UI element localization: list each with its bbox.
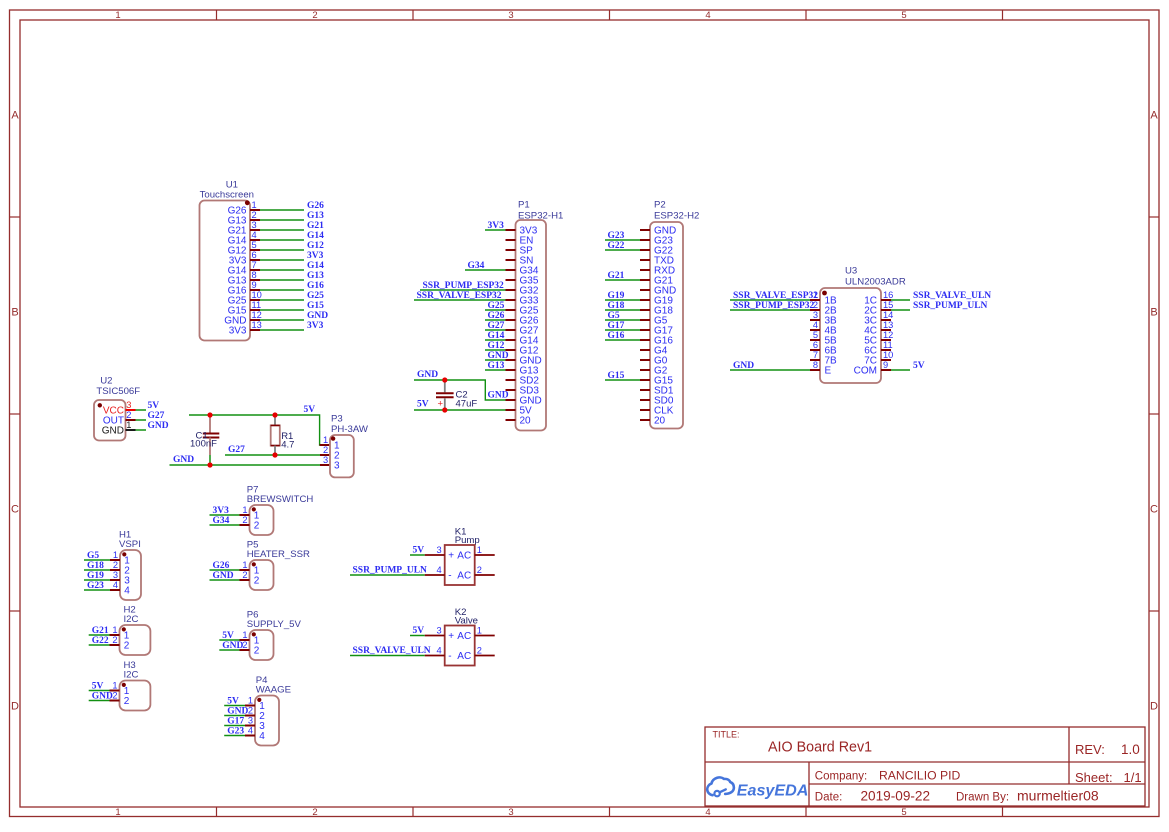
svg-text:SSR_PUMP_ESP32: SSR_PUMP_ESP32 [423, 281, 505, 291]
svg-text:1: 1 [323, 435, 328, 445]
svg-text:1.0: 1.0 [1121, 742, 1140, 757]
svg-text:8: 8 [252, 270, 257, 280]
svg-text:6: 6 [813, 340, 818, 350]
svg-text:5V: 5V [417, 399, 429, 409]
svg-text:GND: GND [488, 351, 509, 361]
svg-text:2: 2 [254, 520, 260, 531]
svg-text:GND: GND [733, 361, 754, 371]
svg-text:3: 3 [323, 455, 328, 465]
svg-text:-: - [448, 651, 451, 662]
svg-text:3V3: 3V3 [229, 325, 247, 336]
svg-text:4: 4 [705, 10, 710, 21]
svg-text:5V: 5V [413, 626, 425, 636]
svg-text:G34: G34 [213, 516, 230, 526]
svg-text:G23: G23 [608, 231, 625, 241]
svg-text:2019-09-22: 2019-09-22 [861, 789, 931, 804]
svg-text:2: 2 [242, 570, 247, 580]
svg-text:P1: P1 [518, 200, 530, 211]
svg-text:2: 2 [312, 10, 317, 21]
svg-text:16: 16 [883, 290, 893, 300]
svg-text:3V3: 3V3 [307, 321, 324, 331]
svg-text:G19: G19 [87, 571, 104, 581]
svg-text:5V: 5V [227, 696, 239, 706]
svg-text:GND: GND [488, 390, 509, 400]
svg-text:ESP32-H2: ESP32-H2 [654, 210, 699, 221]
svg-text:G19: G19 [608, 291, 625, 301]
svg-text:5: 5 [901, 10, 906, 21]
svg-text:G14: G14 [307, 261, 324, 271]
svg-text:SSR_PUMP_ESP32: SSR_PUMP_ESP32 [733, 301, 815, 311]
svg-text:G13: G13 [307, 271, 324, 281]
svg-text:G15: G15 [608, 371, 625, 381]
svg-text:8: 8 [813, 360, 818, 370]
svg-text:G16: G16 [307, 281, 324, 291]
svg-text:G22: G22 [92, 636, 109, 646]
svg-text:3V3: 3V3 [488, 221, 505, 231]
svg-text:6: 6 [252, 250, 257, 260]
svg-text:A: A [1150, 109, 1158, 121]
svg-text:P3: P3 [331, 414, 343, 425]
svg-text:GND: GND [92, 691, 113, 701]
svg-text:1: 1 [477, 545, 482, 555]
svg-text:B: B [11, 306, 18, 318]
svg-text:12: 12 [252, 310, 262, 320]
svg-text:2: 2 [248, 706, 253, 716]
svg-text:G21: G21 [307, 221, 324, 231]
svg-text:3: 3 [252, 220, 257, 230]
svg-text:13: 13 [883, 320, 893, 330]
svg-text:G5: G5 [87, 551, 99, 561]
svg-text:Touchscreen: Touchscreen [200, 190, 254, 201]
svg-text:3: 3 [437, 626, 442, 636]
svg-text:G27: G27 [488, 321, 505, 331]
svg-text:Drawn By:: Drawn By: [956, 792, 1009, 804]
svg-text:+: + [448, 550, 454, 561]
svg-text:4: 4 [252, 230, 257, 240]
svg-text:HEATER_SSR: HEATER_SSR [247, 549, 310, 560]
svg-text:ULN2003ADR: ULN2003ADR [845, 277, 906, 288]
svg-text:I2C: I2C [124, 614, 139, 625]
svg-text:3: 3 [113, 570, 118, 580]
svg-text:+: + [438, 399, 444, 410]
svg-text:4: 4 [437, 565, 442, 575]
svg-text:2: 2 [254, 645, 260, 656]
svg-text:2: 2 [312, 807, 317, 818]
svg-text:G25: G25 [488, 301, 505, 311]
svg-text:U3: U3 [845, 266, 857, 277]
svg-text:1/1: 1/1 [1124, 770, 1142, 785]
svg-text:1: 1 [477, 626, 482, 636]
svg-text:1: 1 [126, 420, 131, 430]
svg-text:PH-3AW: PH-3AW [331, 424, 369, 435]
svg-text:1: 1 [115, 10, 120, 21]
svg-text:2: 2 [323, 445, 328, 455]
svg-text:2: 2 [477, 565, 482, 575]
svg-text:1: 1 [113, 550, 118, 560]
svg-text:GND: GND [307, 311, 328, 321]
svg-text:3V3: 3V3 [307, 251, 324, 261]
svg-text:U2: U2 [100, 376, 112, 387]
svg-text:AC: AC [457, 570, 471, 581]
svg-text:3: 3 [248, 716, 253, 726]
svg-text:G17: G17 [608, 321, 625, 331]
svg-text:5V: 5V [913, 361, 925, 371]
svg-text:G12: G12 [488, 341, 505, 351]
svg-text:-: - [448, 570, 451, 581]
svg-text:GND: GND [213, 571, 234, 581]
svg-text:GND: GND [148, 421, 169, 431]
svg-text:E: E [825, 365, 832, 376]
svg-text:GND: GND [417, 370, 438, 380]
svg-text:4: 4 [705, 807, 710, 818]
svg-text:Sheet:: Sheet: [1075, 770, 1113, 785]
svg-text:4: 4 [259, 731, 265, 742]
svg-text:C: C [1150, 503, 1158, 515]
svg-text:3: 3 [508, 10, 513, 21]
svg-text:D: D [11, 700, 19, 712]
svg-text:TSIC506F: TSIC506F [96, 386, 140, 397]
svg-text:GND: GND [102, 425, 124, 436]
svg-text:3: 3 [126, 400, 131, 410]
svg-text:5: 5 [252, 240, 257, 250]
svg-text:5V: 5V [304, 405, 316, 415]
svg-text:G21: G21 [608, 271, 625, 281]
svg-text:4: 4 [124, 585, 130, 596]
svg-text:G13: G13 [307, 211, 324, 221]
svg-text:AIO Board Rev1: AIO Board Rev1 [768, 740, 872, 756]
svg-text:5V: 5V [413, 545, 425, 555]
svg-text:10: 10 [252, 290, 262, 300]
svg-text:VSPI: VSPI [119, 539, 141, 550]
svg-text:4: 4 [437, 646, 442, 656]
svg-text:G23: G23 [227, 726, 244, 736]
svg-text:2: 2 [124, 640, 130, 651]
svg-text:G23: G23 [87, 581, 104, 591]
svg-text:9: 9 [252, 280, 257, 290]
svg-text:GND: GND [222, 641, 243, 651]
svg-text:7: 7 [252, 260, 257, 270]
svg-text:4: 4 [248, 726, 253, 736]
svg-text:1: 1 [115, 807, 120, 818]
svg-text:G18: G18 [608, 301, 625, 311]
svg-text:G21: G21 [92, 626, 109, 636]
svg-text:I2C: I2C [124, 670, 139, 681]
svg-text:G13: G13 [488, 361, 505, 371]
svg-text:G18: G18 [87, 561, 104, 571]
svg-text:SSR_VALVE_ESP32: SSR_VALVE_ESP32 [417, 291, 502, 301]
svg-text:4.7: 4.7 [281, 440, 294, 451]
svg-text:G26: G26 [307, 201, 324, 211]
svg-text:1: 1 [248, 696, 253, 706]
svg-text:2: 2 [126, 410, 131, 420]
svg-text:12: 12 [883, 330, 893, 340]
svg-text:2: 2 [112, 635, 117, 645]
svg-text:3: 3 [437, 545, 442, 555]
svg-text:G34: G34 [468, 261, 485, 271]
svg-text:G17: G17 [227, 716, 244, 726]
svg-text:murmeltier08: murmeltier08 [1017, 788, 1099, 804]
svg-text:Date:: Date: [815, 792, 843, 804]
svg-text:G14: G14 [307, 231, 324, 241]
svg-text:20: 20 [654, 415, 666, 426]
svg-text:G26: G26 [213, 561, 230, 571]
svg-text:AC: AC [457, 631, 471, 642]
svg-text:G12: G12 [307, 241, 324, 251]
svg-text:3V3: 3V3 [213, 506, 230, 516]
svg-text:AC: AC [457, 651, 471, 662]
svg-text:100nF: 100nF [190, 438, 217, 449]
svg-text:Company:: Company: [815, 771, 867, 783]
svg-text:14: 14 [883, 310, 893, 320]
svg-text:4: 4 [813, 320, 818, 330]
svg-text:11: 11 [252, 300, 262, 310]
svg-text:G5: G5 [608, 311, 620, 321]
svg-text:G26: G26 [488, 311, 505, 321]
svg-text:5V: 5V [92, 681, 104, 691]
svg-text:47uF: 47uF [456, 398, 478, 409]
svg-text:SSR_PUMP_ULN: SSR_PUMP_ULN [913, 301, 988, 311]
svg-text:3: 3 [813, 310, 818, 320]
svg-text:4: 4 [113, 580, 118, 590]
svg-text:G16: G16 [608, 331, 625, 341]
svg-text:COM: COM [854, 365, 877, 376]
svg-text:D: D [1150, 700, 1158, 712]
svg-text:BREWSWITCH: BREWSWITCH [247, 494, 314, 505]
svg-text:1: 1 [242, 560, 247, 570]
svg-text:SSR_VALVE_ESP32: SSR_VALVE_ESP32 [733, 291, 818, 301]
svg-text:2: 2 [242, 515, 247, 525]
svg-text:2: 2 [112, 691, 117, 701]
svg-text:15: 15 [883, 300, 893, 310]
svg-text:G25: G25 [307, 291, 324, 301]
svg-text:SSR_VALVE_ULN: SSR_VALVE_ULN [353, 646, 431, 656]
svg-text:2: 2 [477, 646, 482, 656]
svg-text:G22: G22 [608, 241, 625, 251]
svg-text:5: 5 [901, 807, 906, 818]
svg-text:REV:: REV: [1075, 742, 1105, 757]
svg-text:1: 1 [252, 200, 257, 210]
svg-text:2: 2 [252, 210, 257, 220]
svg-text:GND: GND [173, 455, 194, 465]
svg-text:G27: G27 [148, 411, 165, 421]
svg-text:3: 3 [334, 460, 340, 471]
svg-text:AC: AC [457, 550, 471, 561]
svg-text:11: 11 [883, 340, 893, 350]
svg-text:1: 1 [242, 505, 247, 515]
svg-text:20: 20 [520, 415, 532, 426]
svg-text:3: 3 [508, 807, 513, 818]
svg-text:9: 9 [883, 360, 888, 370]
svg-text:EasyEDA: EasyEDA [737, 781, 809, 799]
svg-text:5: 5 [813, 330, 818, 340]
svg-text:G14: G14 [488, 331, 505, 341]
svg-text:B: B [1150, 306, 1157, 318]
svg-text:G15: G15 [307, 301, 324, 311]
svg-text:1: 1 [112, 625, 117, 635]
svg-text:SUPPLY_5V: SUPPLY_5V [247, 619, 302, 630]
svg-text:2: 2 [254, 575, 260, 586]
svg-text:RANCILIO PID: RANCILIO PID [879, 769, 960, 783]
svg-text:TITLE:: TITLE: [713, 730, 740, 740]
svg-text:G27: G27 [228, 445, 245, 455]
svg-text:2: 2 [113, 560, 118, 570]
svg-text:C: C [11, 503, 19, 515]
svg-text:1: 1 [242, 630, 247, 640]
svg-text:+: + [448, 631, 454, 642]
svg-text:WAAGE: WAAGE [256, 685, 291, 696]
svg-text:SSR_VALVE_ULN: SSR_VALVE_ULN [913, 291, 991, 301]
svg-text:2: 2 [124, 696, 130, 707]
svg-text:SSR_PUMP_ULN: SSR_PUMP_ULN [353, 565, 428, 575]
svg-text:5V: 5V [148, 401, 160, 411]
svg-text:13: 13 [252, 320, 262, 330]
svg-text:1: 1 [112, 681, 117, 691]
svg-text:P2: P2 [654, 200, 666, 211]
svg-text:10: 10 [883, 350, 893, 360]
svg-text:5V: 5V [222, 631, 234, 641]
svg-text:A: A [11, 109, 19, 121]
svg-text:GND: GND [227, 706, 248, 716]
svg-text:7: 7 [813, 350, 818, 360]
